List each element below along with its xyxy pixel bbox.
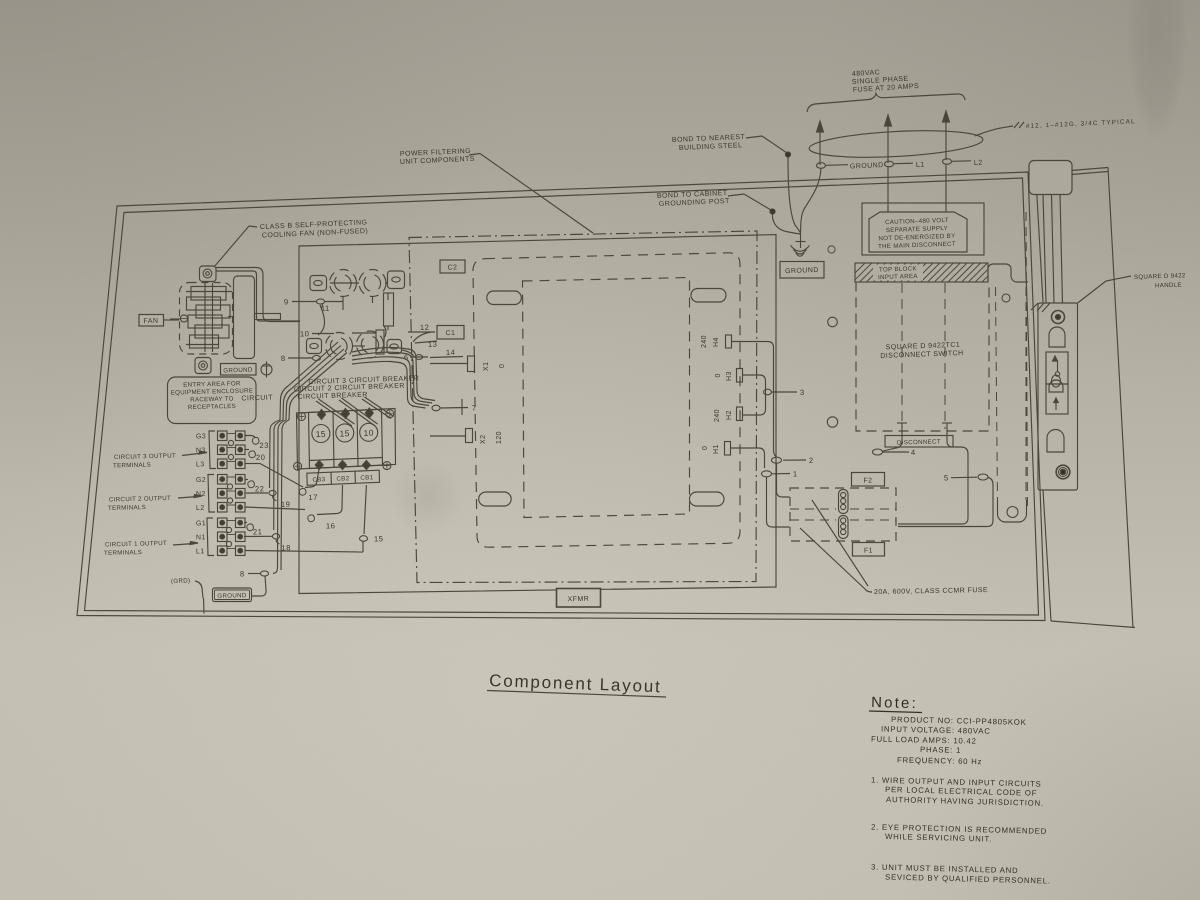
- labels CIRCUIT 1 OUTPUT TERMINALS: [104, 540, 198, 557]
- breaker bank screw BL: [294, 462, 302, 470]
- terminal H3 with labels: [715, 369, 743, 383]
- svg-text:L1: L1: [916, 162, 925, 169]
- svg-text:H4: H4: [713, 337, 720, 347]
- svg-text:2: 2: [809, 456, 814, 465]
- callout 20: [245, 450, 266, 462]
- output wire risers: [270, 420, 290, 574]
- breaker CB3 bottom lug: [315, 461, 323, 470]
- ground symbol: [791, 233, 810, 256]
- svg-text:12: 12: [420, 323, 430, 332]
- node 2 callout: [772, 456, 814, 465]
- svg-text:G1: G1: [196, 520, 206, 527]
- handle plate bottom screw: [1056, 465, 1070, 479]
- terminal L1 with label: [885, 161, 925, 169]
- svg-text:H2: H2: [726, 410, 733, 420]
- svg-text:CB3: CB3: [312, 476, 325, 483]
- label box C1: [437, 326, 464, 340]
- output terminal G3: [196, 431, 245, 441]
- wire disconnect to node 4: [883, 423, 952, 451]
- enclosure panel outline (double-line frame): [77, 172, 1045, 621]
- title Component Layout: [487, 671, 666, 697]
- svg-text:22: 22: [255, 484, 265, 493]
- output terminal N3: [196, 445, 245, 455]
- transformer slot top-right: [691, 289, 726, 303]
- note 2: [871, 823, 1047, 844]
- svg-text:5: 5: [944, 473, 949, 482]
- terminal group bracket circuit3: [209, 431, 234, 469]
- backplate dashed edge with slot: [996, 287, 1027, 522]
- grounding post symbol: [261, 362, 272, 378]
- node 4 callout: [873, 448, 916, 457]
- svg-text:8: 8: [281, 354, 286, 363]
- terminal group bracket circuit2: [208, 475, 233, 513]
- svg-text:PHASE: 1: PHASE: 1: [920, 745, 961, 755]
- label CIRCUIT 2 CIRCUIT BREAKER: [294, 383, 405, 394]
- wire ground to panel edge: [203, 598, 206, 614]
- terminal H1 with labels: [702, 442, 731, 456]
- svg-text:G3: G3: [196, 433, 206, 440]
- wire ground terminal down: [801, 168, 822, 233]
- svg-text:(GRD): (GRD): [171, 577, 191, 585]
- wires breaker labels to lugs: [316, 397, 394, 426]
- terminal X1 with labels: [468, 356, 507, 372]
- label CLASS B SELF-PROTECTING COOLING FAN: [214, 219, 368, 267]
- svg-text:10: 10: [300, 329, 310, 338]
- fuse block dashed outline: [790, 488, 896, 541]
- breaker CB1 bottom lug: [362, 461, 370, 470]
- svg-text:TERMINALS: TERMINALS: [104, 549, 142, 557]
- label BOND TO NEAREST BUILDING STEEL: [672, 134, 787, 153]
- wire entry notch right of strip: [988, 264, 1028, 282]
- filter mount tab upper-left: [310, 276, 327, 291]
- label box C2: [440, 260, 465, 273]
- wire H4 to node 2: [732, 342, 777, 458]
- labels CIRCUIT 2 OUTPUT TERMINALS: [108, 495, 202, 512]
- breaker bank frame: [297, 409, 396, 470]
- svg-text:INPUT AREA: INPUT AREA: [878, 273, 918, 281]
- callout 10: [300, 329, 334, 338]
- wire X2 stub: [430, 435, 466, 437]
- transformer slot top-left: [487, 291, 522, 305]
- svg-text:9: 9: [284, 297, 289, 306]
- svg-text:21: 21: [253, 527, 263, 536]
- fan housing: [234, 276, 255, 359]
- breaker bank screw TR: [386, 410, 394, 418]
- callout 9: [284, 297, 343, 306]
- callout 23: [245, 436, 269, 450]
- callout 12: [408, 323, 435, 332]
- output terminal G1: [196, 518, 245, 528]
- svg-text:CB1: CB1: [360, 474, 373, 481]
- svg-text:F1: F1: [864, 547, 873, 554]
- callout 13: [415, 340, 438, 349]
- svg-text:H3: H3: [726, 371, 733, 381]
- wire disconnect right loop to node 5: [947, 441, 968, 470]
- callout 22: [245, 480, 265, 494]
- wire X1 stub: [430, 363, 468, 365]
- note 1: [871, 776, 1044, 808]
- callout 19: [245, 490, 291, 509]
- svg-text:DISCONNECT: DISCONNECT: [897, 438, 941, 446]
- breaker CB1 rating 10: [360, 423, 378, 441]
- label box GROUND (fan area): [221, 364, 257, 376]
- svg-text:15: 15: [374, 534, 384, 543]
- bond node building steel: [785, 152, 790, 157]
- svg-text:8: 8: [240, 569, 245, 578]
- switch mount hole lower: [827, 417, 837, 427]
- bond node cabinet post: [770, 209, 775, 214]
- disconnect handle bracket outline: [1028, 168, 1135, 629]
- wire CB2 down to callout 16: [308, 485, 343, 530]
- output terminal N1: [196, 532, 245, 542]
- filter mount tab lower-right: [387, 340, 402, 354]
- svg-text:14: 14: [446, 348, 456, 357]
- svg-text:L2: L2: [974, 160, 983, 167]
- callout 14: [430, 348, 463, 358]
- svg-text:X1: X1: [483, 362, 490, 371]
- svg-text:13: 13: [428, 340, 438, 349]
- wire L3 to breaker CB3: [245, 464, 303, 488]
- handle D-slot: [1049, 327, 1065, 347]
- terminal GROUND with label: [817, 162, 884, 170]
- transformer outer dashed outline: [473, 253, 740, 547]
- label 20A 600V CLASS CCMR FUSE: [800, 500, 988, 596]
- handle lower latch detail: [1046, 380, 1068, 414]
- svg-text:0: 0: [702, 446, 709, 450]
- filter component small block: [376, 330, 384, 354]
- svg-text:19: 19: [281, 500, 291, 509]
- transformer slot bottom-right: [690, 492, 725, 506]
- caution label box: [862, 203, 984, 255]
- capacitor can lower-right (dashed): [357, 331, 384, 358]
- output terminal L2: [196, 503, 245, 513]
- capacitor can top-right (dashed): [359, 270, 386, 297]
- backplate hole circle: [1002, 294, 1010, 302]
- svg-text:1: 1: [793, 469, 798, 478]
- filter mount tab upper-right: [388, 271, 405, 289]
- terminal L2 with label: [943, 159, 983, 167]
- label POWER FILTERING UNIT COMPONENTS: [400, 148, 593, 233]
- svg-text:Note:: Note:: [871, 694, 918, 712]
- wire node2 to fuse: [777, 463, 790, 497]
- wire H3-H2 bracket to node 3: [743, 375, 805, 415]
- terminal group bracket circuit1: [207, 518, 232, 556]
- breaker bank screw BR: [383, 462, 391, 470]
- transformer slot bottom-left: [479, 492, 512, 506]
- breaker CB2 bottom lug: [339, 461, 347, 470]
- svg-text:F2: F2: [863, 477, 872, 484]
- svg-text:C2: C2: [447, 264, 457, 271]
- wire bond cabinet to ground post: [772, 214, 800, 234]
- entry area rounded box: [168, 377, 257, 424]
- wire CB1 down to callout 15: [360, 485, 384, 552]
- label SQUARE D 9422 HANDLE: [1077, 272, 1186, 303]
- notes heading Note:: [869, 694, 922, 712]
- svg-text:15: 15: [339, 428, 350, 438]
- capacitor can top-left (dashed): [330, 270, 357, 297]
- breaker bank screw TL: [298, 413, 306, 421]
- wire node5 down to fuse block: [898, 470, 993, 527]
- switch mount hole upper: [828, 317, 838, 327]
- svg-text:0: 0: [499, 364, 506, 368]
- label #12 1-#12G 3/4C TYPICAL: [1014, 118, 1136, 130]
- handle plate top screw: [1052, 311, 1065, 324]
- svg-text:X2: X2: [480, 435, 487, 444]
- filter mount tab lower-left: [307, 339, 322, 354]
- svg-text:HANDLE: HANDLE: [1155, 282, 1182, 290]
- terminal H2 with labels: [714, 407, 743, 422]
- note product data: [871, 715, 1027, 766]
- supply arrow L2: [943, 111, 950, 160]
- wire L1 run to 15 loop: [245, 551, 363, 553]
- note 3: [871, 863, 1051, 886]
- svg-text:XFMR: XFMR: [568, 596, 590, 603]
- callout 6: [404, 353, 428, 362]
- svg-text:20: 20: [256, 453, 266, 462]
- wire node1 to fuse: [767, 477, 790, 527]
- svg-text:0: 0: [715, 373, 722, 377]
- label BOND TO CABINET GROUNDING POST: [657, 190, 771, 210]
- output terminal G2: [196, 475, 245, 485]
- fan mount tab top: [200, 266, 217, 282]
- label box FAN: [139, 315, 179, 327]
- svg-text:23: 23: [259, 441, 269, 450]
- callout 11: [321, 303, 330, 313]
- label box GROUND (top): [780, 262, 824, 279]
- enclosure right edge dashed line: [1026, 212, 1028, 512]
- conduit ellipse: [808, 126, 1013, 161]
- label (GRD): [171, 577, 203, 598]
- svg-text:15: 15: [315, 429, 326, 439]
- callout 21: [244, 523, 263, 537]
- hatched strip TOP BLOCK INPUT AREA: [855, 263, 988, 282]
- disconnect switch dashed outline: [856, 282, 989, 432]
- svg-text:H1: H1: [713, 444, 720, 454]
- handle lower slot: [1047, 430, 1064, 453]
- breaker CB3 rating 15: [312, 425, 330, 443]
- breaker CB1 top lug: [365, 408, 373, 418]
- capacitor can lower-left (dashed): [326, 333, 353, 360]
- breaker CB2 top lug: [341, 409, 349, 419]
- filter internal wires: [318, 283, 431, 357]
- svg-text:G2: G2: [196, 477, 206, 484]
- inductor body vertical: [384, 293, 394, 326]
- svg-text:4: 4: [911, 448, 916, 457]
- output terminal L1: [196, 546, 245, 556]
- output terminal L3: [196, 459, 245, 469]
- svg-text:240: 240: [701, 335, 708, 348]
- svg-text:FAN: FAN: [143, 318, 158, 326]
- label box F2: [852, 473, 885, 487]
- terminal H4 with labels: [701, 335, 732, 348]
- filter sub-panel outline: [299, 235, 776, 594]
- wire CB3 to callout 17: [299, 469, 319, 502]
- svg-text:120: 120: [496, 431, 503, 444]
- svg-text:L3: L3: [196, 461, 205, 468]
- callout 8: [281, 354, 321, 363]
- handle top cap: [1029, 161, 1072, 195]
- svg-text:CB2: CB2: [336, 475, 349, 482]
- breaker CB2 rating 15: [336, 424, 354, 442]
- svg-text:GROUND: GROUND: [785, 267, 819, 275]
- svg-text:10: 10: [363, 428, 374, 438]
- fuse F2 cartridge: [839, 490, 849, 514]
- terminal X2 with labels: [466, 429, 504, 445]
- svg-text:16: 16: [326, 521, 336, 530]
- labels CIRCUIT 3 OUTPUT TERMINALS: [113, 451, 207, 469]
- label box F1: [853, 543, 885, 557]
- wire H1 to node 1: [731, 448, 765, 468]
- handle mechanism plate: [1031, 303, 1078, 490]
- breaker CB3 top lug: [318, 410, 326, 420]
- svg-text:CIRCUIT: CIRCUIT: [241, 394, 273, 402]
- wire bond steel to ground post: [788, 157, 801, 233]
- svg-text:GROUND: GROUND: [850, 162, 884, 170]
- wire fan to filter (double): [216, 268, 300, 322]
- svg-text:L2: L2: [196, 505, 205, 512]
- fan shaft: [170, 314, 281, 323]
- svg-text:RECEPTACLES: RECEPTACLES: [188, 403, 236, 411]
- callout 8 ground wire: [240, 569, 269, 596]
- svg-text:17: 17: [308, 493, 318, 502]
- label box GROUND (bottom): [213, 588, 252, 602]
- svg-text:GROUND: GROUND: [223, 366, 253, 374]
- fan mount tab bottom: [195, 358, 211, 374]
- svg-text:GROUND: GROUND: [217, 592, 247, 600]
- node 1 callout: [762, 469, 798, 478]
- label SQUARE D 9422TC1 DISCONNECT SWITCH: [880, 342, 964, 360]
- fuse F1 cartridge: [839, 516, 849, 539]
- svg-text:N1: N1: [196, 534, 206, 541]
- power filtering unit dash-dot boundary: [409, 231, 757, 583]
- handle shaft (double lines): [1043, 194, 1063, 303]
- supply arrow L0: [817, 121, 824, 165]
- callout 7: [432, 399, 477, 415]
- svg-text:TERMINALS: TERMINALS: [108, 504, 146, 512]
- svg-text:L1: L1: [196, 548, 205, 555]
- svg-text:7: 7: [472, 403, 477, 412]
- wire bundle to transformer taps: [352, 348, 435, 409]
- label box DISCONNECT: [885, 436, 953, 448]
- svg-text:C1: C1: [445, 330, 455, 337]
- brace over supply wires: [807, 94, 965, 113]
- svg-text:240: 240: [714, 409, 721, 422]
- label CIRCUIT 3 CIRCUIT BREAKER: [308, 375, 419, 386]
- supply arrow L1: [885, 115, 892, 163]
- wire L1 into caution box: [887, 167, 889, 204]
- callout 18: [244, 534, 291, 553]
- svg-text:3: 3: [800, 388, 805, 397]
- fan motor stack: [186, 283, 232, 352]
- wire L2 into caution box: [945, 165, 947, 205]
- svg-text:TERMINALS: TERMINALS: [113, 462, 151, 470]
- transformer core inner dashed square: [523, 278, 690, 518]
- wire L2 run to 16 loop: [245, 507, 305, 510]
- svg-text:FREQUENCY: 60 Hz: FREQUENCY: 60 Hz: [897, 756, 982, 767]
- label box XFMR: [557, 589, 601, 608]
- label 480VAC SINGLE PHASE FUSE AT 20 AMPS: [852, 69, 920, 94]
- label boxes CB3 CB2 CB1: [307, 470, 380, 485]
- node 5 callout: [944, 473, 988, 482]
- handle middle latch detail: [1046, 352, 1068, 387]
- cabinet grounding post circle: [828, 246, 835, 253]
- output terminal N2: [196, 489, 245, 499]
- fan body dashed outline: [180, 283, 233, 355]
- wire bundle filter to breaker labels: [280, 342, 347, 420]
- label CIRCUIT 1 CIRCUIT BREAKER: [241, 392, 368, 403]
